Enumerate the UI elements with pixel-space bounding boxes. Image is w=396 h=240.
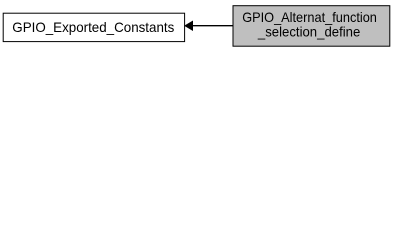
svg-text:GPIO_Exported_Constants: GPIO_Exported_Constants: [12, 19, 174, 35]
node GPIO_Alternat_function_selection_define label line 2: [257, 24, 361, 40]
node GPIO_Alternat_function_selection_define label line 1: [242, 9, 377, 25]
edge arrowhead pointing at GPIO_Exported_Constants: [185, 21, 193, 30]
edge line: [193, 25, 234, 27]
svg-text:GPIO_Alternat_function: GPIO_Alternat_function: [242, 9, 377, 25]
node GPIO_Alternat_function_selection_define box (current node, grey fill): [233, 6, 390, 47]
svg-text:_selection_define: _selection_define: [257, 24, 361, 40]
node GPIO_Exported_Constants label: [12, 19, 174, 35]
node GPIO_Exported_Constants box: [3, 13, 184, 41]
